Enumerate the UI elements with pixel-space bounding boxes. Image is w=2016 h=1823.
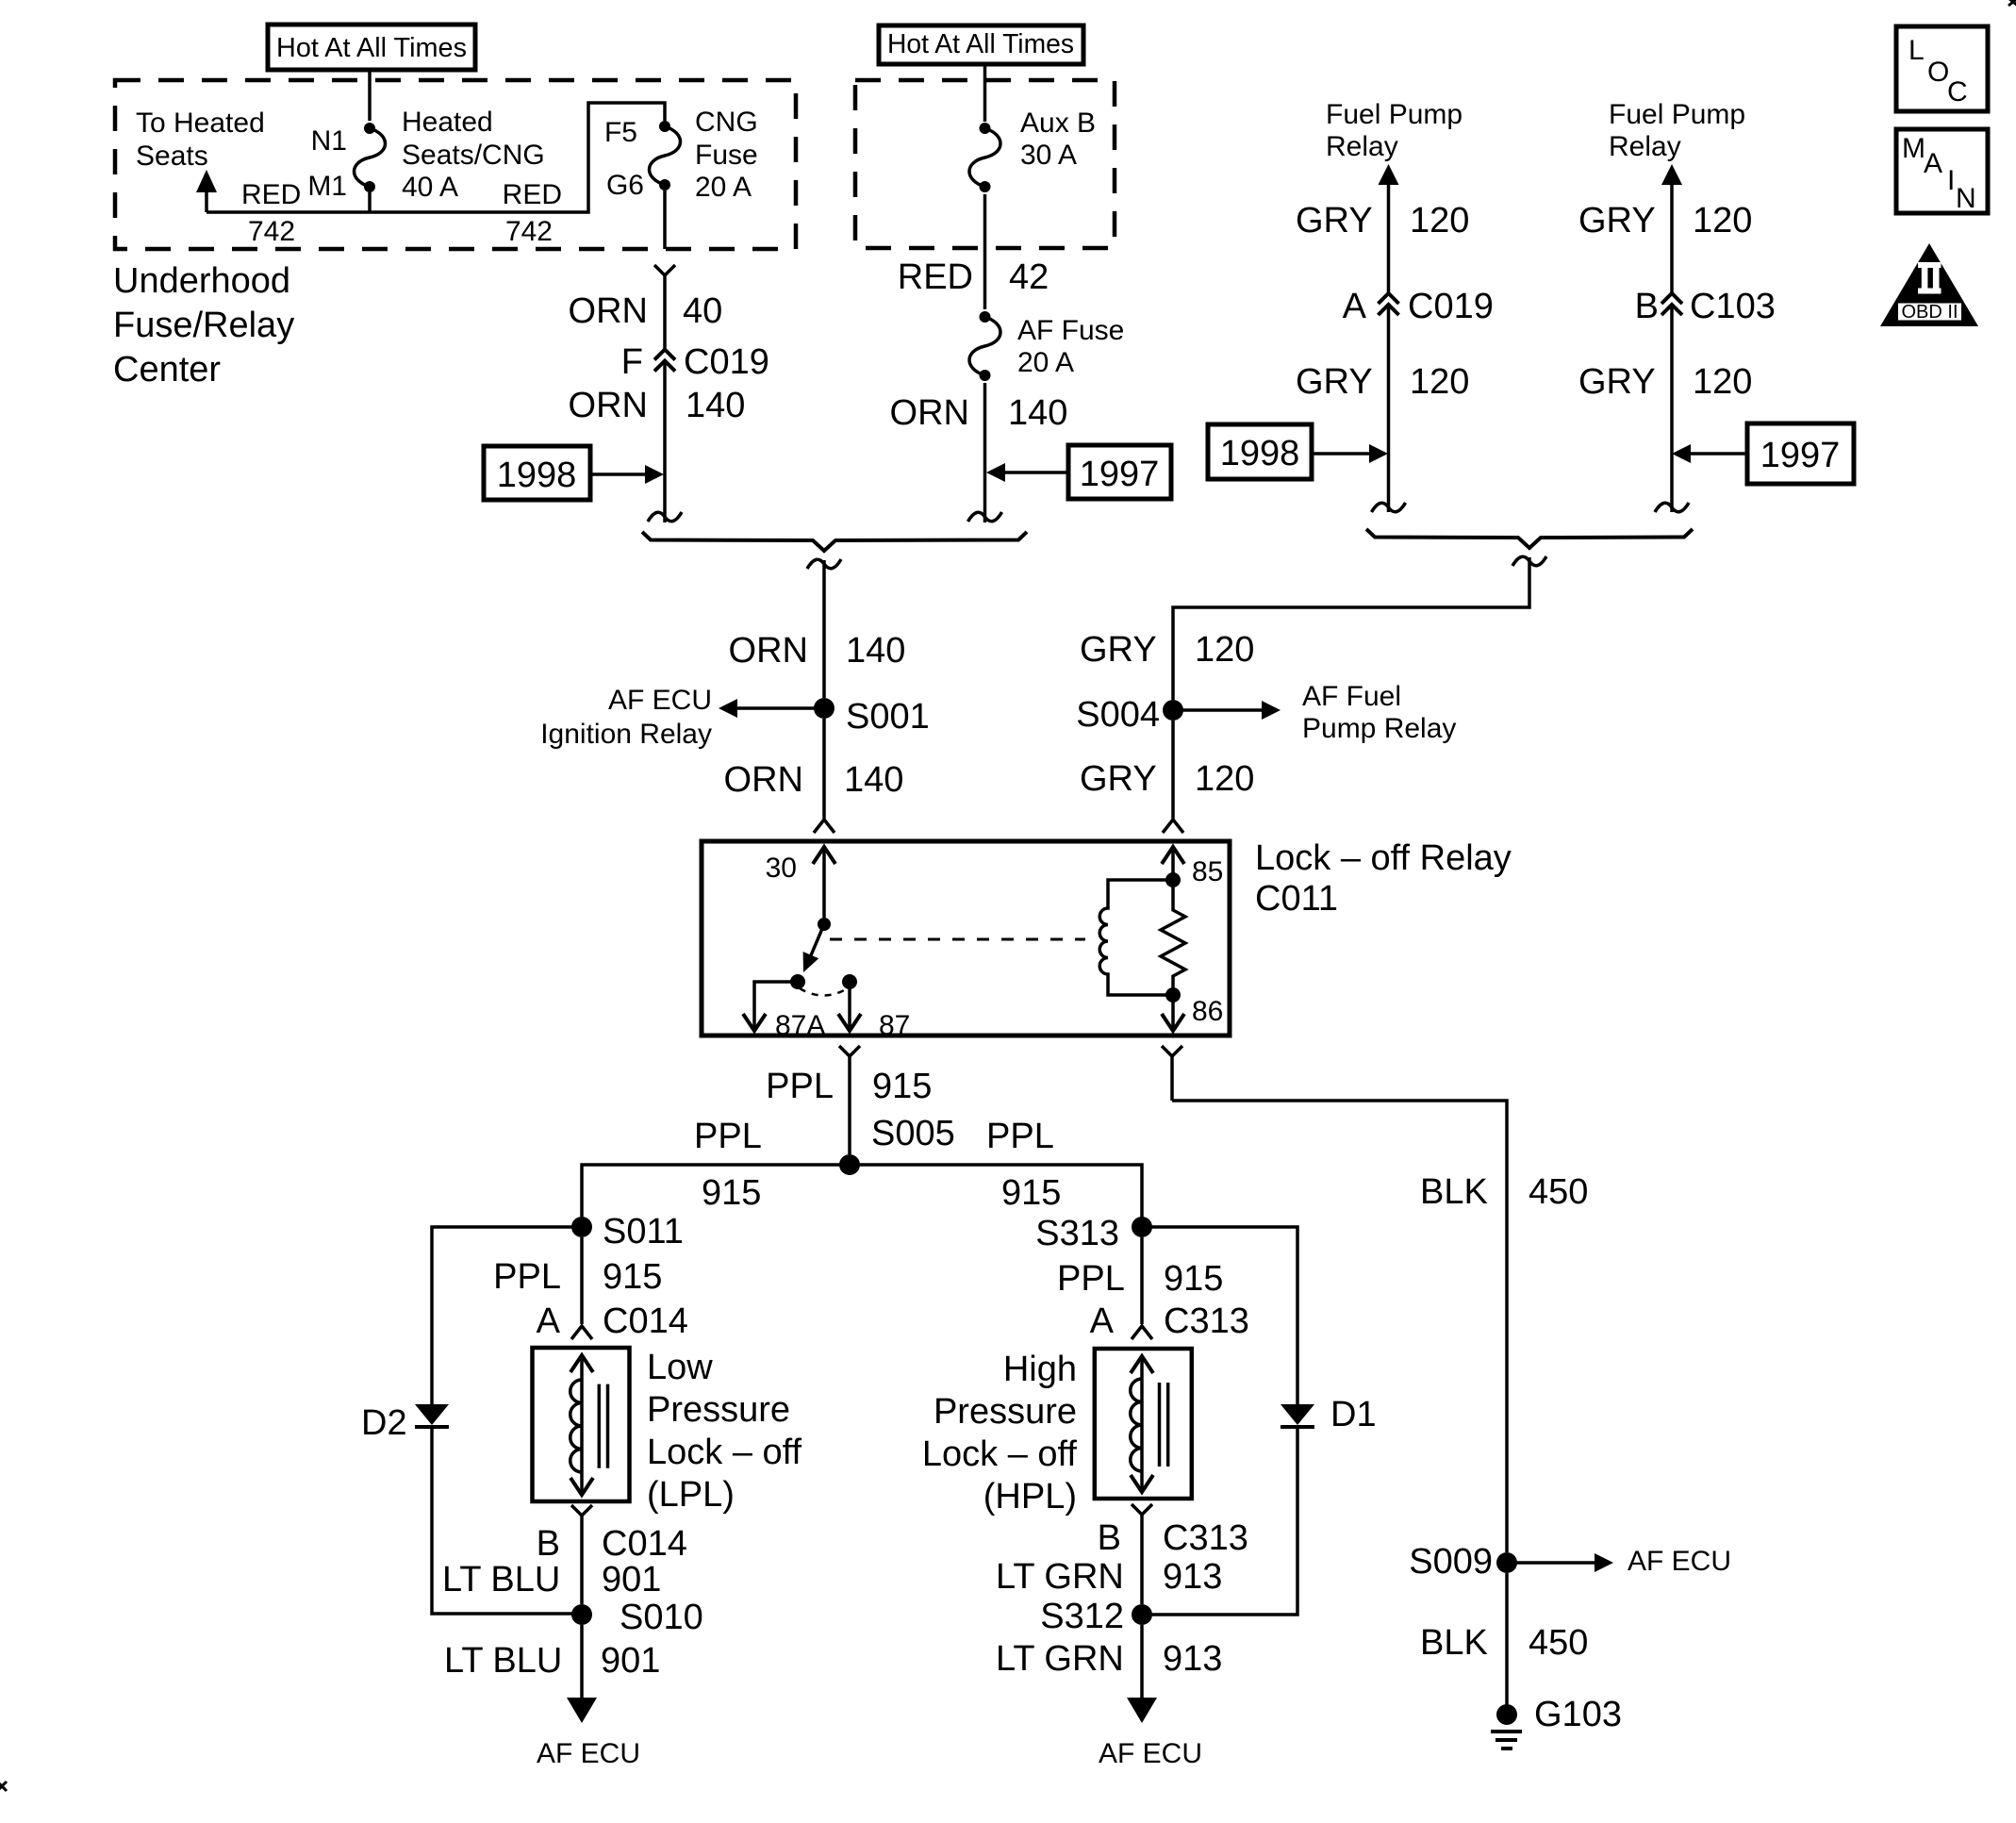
squiggle below ORN brace — [807, 559, 841, 569]
svg-text:Low: Low — [647, 1348, 713, 1387]
svg-text:L: L — [1909, 35, 1925, 66]
splice S005 — [839, 1154, 860, 1175]
svg-text:120: 120 — [1693, 362, 1752, 402]
arrow to heated seats — [196, 170, 217, 212]
svg-text:140: 140 — [846, 631, 905, 671]
wire GRY 120 down to brace — [1387, 305, 1391, 512]
svg-text:87: 87 — [879, 1010, 910, 1041]
arrow from 1997 to ORN wire — [986, 463, 1068, 482]
svg-text:915: 915 — [702, 1173, 761, 1213]
LPL solenoid internals — [570, 1355, 608, 1495]
svg-text:PPL: PPL — [493, 1257, 561, 1297]
label LT GRN 913 (lower) — [996, 1639, 1222, 1679]
label Underhood Fuse/Relay Center — [113, 261, 294, 389]
svg-text:LT GRN: LT GRN — [996, 1639, 1124, 1679]
splice S001 — [814, 697, 930, 737]
in-line connector B C103 — [1661, 293, 1682, 315]
wire S313 to HPL connector A — [1132, 1237, 1152, 1339]
svg-text:F5: F5 — [604, 117, 637, 148]
label PPL 915 below relay — [766, 1067, 932, 1106]
diode D2 branch wire — [432, 1227, 582, 1404]
OBD II symbol triangle — [1880, 243, 1978, 326]
svg-text:40: 40 — [683, 291, 722, 331]
arrow from 1998 to ORN wire — [590, 465, 664, 484]
Underhood Fuse/Relay Center dashed box — [115, 80, 796, 249]
svg-text:GRY: GRY — [1296, 362, 1373, 402]
svg-text:30 A: 30 A — [1020, 140, 1077, 171]
svg-text:Fuel Pump: Fuel Pump — [1326, 99, 1462, 130]
svg-text:Pressure: Pressure — [934, 1392, 1077, 1432]
svg-text:S009: S009 — [1409, 1542, 1493, 1582]
svg-text:85: 85 — [1192, 856, 1223, 887]
svg-text:O: O — [1927, 57, 1949, 88]
svg-text:I: I — [1947, 165, 1955, 196]
label LT BLU 901 (lower) — [444, 1641, 660, 1681]
reference box 1997 (right) — [1747, 423, 1854, 484]
wire from GRY brace to splice S004 — [1173, 557, 1529, 700]
svg-text:M: M — [1902, 133, 1925, 164]
svg-text:742: 742 — [505, 216, 553, 247]
relay coil — [1099, 880, 1173, 995]
dashed link from switch to coil — [830, 938, 1085, 941]
label RED 42 — [898, 257, 1049, 297]
Aux B fuse dashed box — [855, 80, 1115, 248]
svg-text:LT BLU: LT BLU — [444, 1641, 562, 1681]
label GRY 120 (lower right) — [1578, 362, 1752, 402]
wire break squiggle on ORN wire — [648, 512, 682, 522]
svg-text:LT GRN: LT GRN — [996, 1557, 1124, 1597]
svg-text:S005: S005 — [871, 1114, 955, 1153]
wire break squiggle on center ORN wire — [968, 512, 1002, 522]
svg-text:A: A — [1090, 1301, 1115, 1341]
svg-text:Aux B: Aux B — [1020, 108, 1096, 139]
in-line connector A C019 — [1379, 293, 1399, 315]
label LT GRN 913 (upper) — [996, 1557, 1222, 1597]
label BLK 450 (upper) — [1420, 1172, 1588, 1212]
label PPL 915 (HPL feed) — [1057, 1259, 1223, 1299]
label A / C019 — [1343, 287, 1494, 326]
label A C014 — [537, 1301, 688, 1341]
fuel pump relay feed wire B (right) — [1661, 164, 1682, 292]
svg-text:42: 42 — [1009, 257, 1049, 297]
squiggle below GRY brace — [1512, 556, 1546, 566]
svg-text:AF ECU: AF ECU — [608, 685, 712, 716]
svg-text:To Heated: To Heated — [136, 108, 265, 139]
svg-text:450: 450 — [1529, 1172, 1588, 1212]
svg-text:GRY: GRY — [1578, 201, 1656, 240]
wire break squiggle on GRY wire A — [1372, 503, 1406, 512]
arrow S004 to AF Fuel Pump Relay — [1173, 701, 1281, 720]
label ORN 140 above S001 — [729, 631, 906, 671]
svg-text:N1: N1 — [311, 125, 347, 157]
svg-text:B: B — [1635, 287, 1659, 326]
svg-text:Hot At All Times: Hot At All Times — [276, 33, 467, 63]
svg-text:BLK: BLK — [1420, 1172, 1488, 1212]
wire D2 to S010 — [432, 1427, 576, 1614]
diode D1 — [1281, 1395, 1377, 1434]
label AF Fuse 20 A — [1017, 315, 1124, 378]
svg-text:140: 140 — [1008, 393, 1067, 433]
label Fuel Pump Relay (right) — [1609, 99, 1745, 162]
svg-text:20 A: 20 A — [695, 172, 752, 203]
dashed arc between 87A and 87 — [800, 988, 848, 996]
brace merging ORN wires — [642, 532, 1027, 551]
svg-text:915: 915 — [1001, 1173, 1061, 1213]
svg-text:N: N — [1956, 183, 1976, 214]
svg-text:PPL: PPL — [1057, 1259, 1125, 1299]
svg-text:S004: S004 — [1076, 695, 1160, 735]
label PPL S005 PPL — [694, 1114, 1054, 1156]
splice S011 — [571, 1212, 684, 1251]
svg-text:RED: RED — [241, 179, 301, 210]
svg-text:C019: C019 — [684, 342, 769, 382]
wire D1 to S312 — [1152, 1427, 1297, 1615]
svg-text:140: 140 — [844, 760, 903, 800]
relay switch arm with arrowhead — [803, 924, 824, 972]
wire RED 742 from heated seats arrow to fuse F5 — [207, 103, 665, 212]
svg-text:Fuse: Fuse — [695, 140, 758, 171]
label ORN 40 — [569, 291, 723, 331]
svg-text:Ignition Relay: Ignition Relay — [540, 719, 712, 750]
diode D2 — [361, 1403, 449, 1443]
label GRY 120 (lower left) — [1296, 362, 1469, 402]
svg-text:PPL: PPL — [766, 1067, 834, 1106]
label PPL 915 (LPL feed) — [493, 1257, 662, 1297]
arrow S009 to AF ECU — [1507, 1546, 1731, 1577]
svg-text:Center: Center — [113, 350, 221, 389]
svg-text:Lock – off: Lock – off — [922, 1434, 1078, 1474]
svg-text:PPL: PPL — [986, 1117, 1054, 1156]
label GRY 120 (upper left) — [1296, 201, 1469, 240]
relay pin 85 arrow — [1162, 847, 1223, 887]
svg-text:C014: C014 — [602, 1524, 687, 1564]
splice S010 — [571, 1598, 703, 1637]
svg-text:RED: RED — [898, 257, 973, 297]
svg-text:742: 742 — [248, 216, 295, 247]
svg-text:ORN: ORN — [569, 386, 648, 425]
svg-text:Hot At All Times: Hot At All Times — [887, 29, 1074, 59]
wire Hot At All Times to Aux B fuse — [983, 64, 987, 122]
label A C313 — [1090, 1301, 1249, 1341]
connector below LPL (B C014) — [571, 1505, 592, 1604]
label LT BLU 901 (upper) — [442, 1560, 661, 1599]
label AF Fuel Pump Relay — [1302, 681, 1456, 744]
label RED 742 (left) — [241, 179, 301, 247]
label GRY 120 below S004 — [1080, 759, 1254, 799]
wire S011 to LPL connector A — [571, 1237, 592, 1339]
svg-text:Seats: Seats — [136, 141, 208, 172]
svg-text:Pressure: Pressure — [647, 1390, 790, 1430]
svg-text:120: 120 — [1410, 201, 1469, 240]
ground G103 — [1491, 1695, 1622, 1748]
label AF ECU Ignition Relay — [540, 685, 712, 750]
svg-text:(LPL): (LPL) — [647, 1475, 735, 1515]
svg-text:AF Fuel: AF Fuel — [1302, 681, 1401, 712]
svg-text:913: 913 — [1163, 1639, 1222, 1679]
label Fuel Pump Relay (left) — [1326, 99, 1462, 162]
label Heated Seats/CNG 40 A — [402, 107, 545, 203]
crop mark bottom left corner — [0, 1781, 7, 1792]
svg-text:1998: 1998 — [1220, 434, 1300, 473]
svg-text:BLK: BLK — [1420, 1623, 1488, 1663]
label To Heated Seats — [136, 108, 265, 172]
locator reference box MAIN — [1896, 129, 1988, 214]
svg-text:AF ECU: AF ECU — [1099, 1738, 1202, 1769]
svg-text:1997: 1997 — [1760, 436, 1841, 475]
connector below relay pin 87 — [839, 1046, 860, 1154]
wire Aux B fuse to AF Fuse — [983, 194, 987, 309]
svg-text:GRY: GRY — [1080, 630, 1157, 670]
svg-text:PPL: PPL — [694, 1117, 762, 1156]
svg-text:Relay: Relay — [1609, 131, 1681, 162]
svg-text:30: 30 — [766, 853, 797, 884]
label ORN 140 (center column) — [890, 393, 1068, 433]
svg-text:140: 140 — [686, 386, 745, 425]
relay pin 86 arrow — [1162, 995, 1223, 1031]
wire AF Fuse down to brace — [983, 383, 987, 522]
label CNG Fuse 20 A — [695, 107, 758, 203]
power label box "Hot At All Times" (right) — [879, 25, 1083, 64]
svg-text:F: F — [621, 342, 643, 382]
reference box 1997 (left) — [1068, 445, 1171, 499]
fuse AF Fuse 20 A — [969, 311, 1000, 381]
fuse N1/M1 Heated Seats/CNG 40 A — [355, 123, 386, 192]
svg-text:C103: C103 — [1690, 287, 1776, 326]
svg-text:G103: G103 — [1534, 1695, 1622, 1734]
svg-text:(HPL): (HPL) — [983, 1477, 1077, 1516]
svg-text:S010: S010 — [620, 1598, 703, 1637]
svg-text:Fuel Pump: Fuel Pump — [1609, 99, 1745, 130]
svg-text:450: 450 — [1529, 1623, 1588, 1663]
svg-text:ORN: ORN — [729, 631, 808, 671]
label RED 742 (right) — [503, 179, 562, 247]
svg-text:86: 86 — [1192, 996, 1223, 1027]
label B C313 — [1098, 1518, 1248, 1558]
fuel pump relay feed wire A (left) — [1379, 164, 1399, 292]
svg-text:S011: S011 — [603, 1212, 684, 1251]
relay switch pivot — [818, 918, 831, 931]
HPL solenoid internals — [1131, 1356, 1168, 1492]
svg-text:C313: C313 — [1164, 1301, 1249, 1341]
crop mark top right corner — [2008, 0, 2016, 6]
splice S313 — [1035, 1214, 1152, 1253]
relay contact 87 — [838, 974, 910, 1041]
wire GRY 120 down to brace (right) — [1670, 305, 1674, 512]
svg-text:GRY: GRY — [1296, 201, 1373, 240]
svg-text:G6: G6 — [606, 170, 644, 201]
label B / C103 — [1635, 287, 1776, 326]
svg-text:LT BLU: LT BLU — [442, 1560, 560, 1599]
svg-text:120: 120 — [1693, 201, 1752, 240]
wire G6 down to fuse box edge — [663, 191, 667, 249]
svg-text:OBD II: OBD II — [1901, 302, 1958, 323]
label Lock-off Relay C011 — [1255, 838, 1512, 919]
wire break squiggle on GRY wire B — [1655, 503, 1689, 512]
svg-text:High: High — [1003, 1350, 1077, 1389]
svg-text:RED: RED — [503, 179, 562, 210]
label ORN 140 — [569, 386, 746, 425]
wire S005 branch left and right — [582, 1165, 1142, 1218]
svg-text:915: 915 — [872, 1067, 932, 1106]
svg-text:B: B — [537, 1524, 560, 1564]
splice S004 — [1076, 695, 1183, 735]
svg-text:915: 915 — [1164, 1259, 1223, 1299]
power label box "Hot At All Times" (left) — [268, 25, 475, 70]
svg-text:40 A: 40 A — [402, 172, 458, 203]
svg-text:120: 120 — [1195, 630, 1254, 670]
relay pin 30 arrow — [766, 847, 835, 918]
wire S004 to relay pin 85 — [1163, 721, 1183, 833]
svg-text:Relay: Relay — [1326, 131, 1398, 162]
diode D1 branch wire — [1142, 1227, 1297, 1404]
svg-text:A: A — [1924, 148, 1942, 179]
svg-text:AF ECU: AF ECU — [1628, 1546, 1731, 1577]
svg-text:120: 120 — [1410, 362, 1469, 402]
label ORN 140 below S001 — [724, 760, 904, 800]
svg-text:Lock – off: Lock – off — [647, 1433, 802, 1472]
brace merging GRY wires — [1366, 529, 1693, 548]
wire S010 to AF ECU with arrow — [567, 1625, 597, 1723]
svg-text:M1: M1 — [307, 171, 347, 202]
label High Pressure Lock-off (HPL) — [922, 1350, 1078, 1516]
svg-text:C313: C313 — [1163, 1518, 1248, 1558]
svg-text:Seats/CNG: Seats/CNG — [402, 140, 545, 171]
svg-text:AF Fuse: AF Fuse — [1017, 315, 1124, 346]
svg-text:C: C — [1947, 76, 1968, 108]
page break connector on CNG fuse output — [654, 265, 675, 349]
svg-text:B: B — [1098, 1518, 1121, 1558]
locator reference box LOC — [1896, 26, 1988, 111]
label Aux B 30 A — [1020, 108, 1096, 171]
wire M1 to RED 742 line — [368, 192, 372, 212]
wire S009 to G103 — [1505, 1573, 1509, 1705]
wire S001 to relay pin 30 — [814, 719, 834, 833]
svg-text:A: A — [1343, 287, 1367, 326]
fuse Aux B 30 A — [969, 123, 1000, 192]
in-line connector F C019 — [654, 350, 675, 372]
fuse F5/G6 CNG Fuse 20 A — [650, 121, 681, 191]
svg-text:ORN: ORN — [890, 393, 969, 433]
svg-text:C019: C019 — [1408, 287, 1494, 326]
Lock-off Relay C011 box — [702, 841, 1230, 1036]
svg-text:S001: S001 — [846, 697, 930, 737]
svg-text:Lock – off Relay: Lock – off Relay — [1255, 838, 1512, 878]
reference box 1998 (left) — [484, 446, 590, 500]
svg-text:1997: 1997 — [1080, 455, 1160, 494]
svg-text:Heated: Heated — [402, 107, 493, 138]
relay coil suppression resistor — [1161, 887, 1185, 987]
svg-text:1998: 1998 — [497, 456, 577, 495]
svg-text:901: 901 — [602, 1560, 661, 1599]
label F / C019 — [621, 342, 769, 382]
High Pressure Lock-off (HPL) solenoid box — [1095, 1349, 1192, 1499]
svg-text:ORN: ORN — [724, 760, 803, 800]
svg-text:D1: D1 — [1330, 1395, 1377, 1434]
splice S312 — [1040, 1597, 1152, 1636]
svg-text:AF ECU: AF ECU — [537, 1738, 640, 1769]
svg-text:GRY: GRY — [1080, 759, 1157, 799]
svg-text:S312: S312 — [1040, 1597, 1124, 1636]
svg-text:Fuse/Relay: Fuse/Relay — [113, 306, 294, 345]
svg-text:GRY: GRY — [1578, 362, 1656, 402]
svg-text:87A: 87A — [775, 1010, 825, 1041]
wire from Hot At All Times down to fuse N1 — [368, 70, 372, 121]
connector below HPL (B C313) — [1132, 1504, 1152, 1604]
svg-text:C011: C011 — [1255, 879, 1338, 919]
svg-text:D2: D2 — [361, 1403, 407, 1443]
svg-text:Pump Relay: Pump Relay — [1302, 713, 1456, 744]
svg-text:20 A: 20 A — [1017, 347, 1074, 378]
wire from brace to splice S001 — [822, 560, 826, 698]
svg-text:915: 915 — [603, 1257, 662, 1297]
svg-text:ORN: ORN — [569, 291, 648, 331]
svg-text:C014: C014 — [603, 1301, 688, 1341]
arrow from 1998 to GRY wire — [1312, 444, 1388, 463]
wire S312 to AF ECU with arrow — [1127, 1625, 1157, 1723]
svg-text:A: A — [537, 1301, 561, 1341]
svg-text:S313: S313 — [1035, 1214, 1119, 1253]
splice S009 — [1409, 1542, 1517, 1582]
svg-text:120: 120 — [1195, 759, 1254, 799]
reference box 1998 (right) — [1208, 424, 1312, 479]
wire relay pin 86 to ground run — [1162, 1046, 1507, 1552]
relay coil terminal 86 dot — [1165, 987, 1181, 1003]
svg-text:CNG: CNG — [695, 107, 758, 138]
relay coil terminal 85 dot — [1165, 872, 1181, 887]
wire ORN 140 from connector down to brace — [663, 361, 667, 522]
label B C014 — [537, 1524, 687, 1564]
relay contact 87A — [743, 974, 825, 1041]
label BLK 450 (lower) — [1420, 1623, 1588, 1663]
svg-text:901: 901 — [601, 1641, 660, 1681]
svg-text:Underhood: Underhood — [113, 261, 290, 301]
label GRY 120 above S004 — [1080, 630, 1254, 670]
arrow from 1997 to GRY wire — [1672, 444, 1747, 463]
svg-text:913: 913 — [1163, 1557, 1222, 1597]
arrow S001 to AF ECU Ignition Relay — [719, 699, 824, 718]
Low Pressure Lock-off (LPL) solenoid box — [533, 1348, 630, 1501]
label Low Pressure Lock-off (LPL) — [647, 1348, 802, 1515]
label GRY 120 (upper right) — [1578, 201, 1752, 240]
